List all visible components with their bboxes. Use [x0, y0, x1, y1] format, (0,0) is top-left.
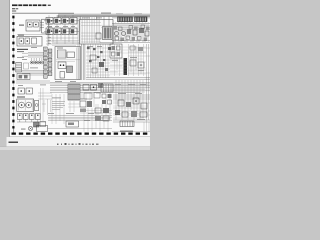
pressure switch P1	[18, 114, 23, 120]
valve V5	[92, 68, 97, 73]
fold strip corner stub	[13, 129, 15, 134]
solenoid valve S2	[54, 18, 61, 25]
relay K1 block	[26, 20, 40, 31]
switch bank SW5	[102, 94, 112, 104]
wire far right verticals	[147, 44, 149, 120]
wire edge bus	[48, 33, 51, 46]
pump motor M1	[19, 102, 25, 108]
title HYDRAULIC CIRCUIT DIAGRAM	[12, 4, 46, 6]
diode D1	[130, 60, 136, 66]
status bar top line	[0, 145, 150, 148]
sensor B6	[118, 100, 124, 106]
diode D2	[138, 62, 144, 68]
sensor B5	[98, 83, 103, 88]
connector J1	[42, 19, 49, 33]
subtitle line 2	[12, 11, 16, 12]
node ATX label	[17, 97, 25, 98]
wire bus drop	[57, 15, 59, 18]
inhibitor switch SW4	[91, 85, 97, 91]
wire switch drops	[17, 120, 46, 123]
page indicator bar	[9, 142, 18, 143]
valve body V1	[103, 27, 113, 40]
viewer background	[0, 0, 150, 150]
switch bank SW7	[95, 108, 109, 121]
sensor B8	[133, 98, 139, 104]
resistor R1 dark bar	[124, 58, 128, 75]
note line	[12, 12, 74, 15]
subtitle line 1b	[16, 8, 18, 9]
relay K2 contact a	[19, 38, 24, 44]
vertical fold line	[13, 16, 15, 133]
pressure switch P4	[36, 114, 41, 120]
sensor B7	[126, 102, 131, 107]
node MODE label	[17, 49, 28, 50]
wire right band verticals	[116, 80, 143, 120]
wire case horizontal runs	[81, 23, 101, 26]
relay box RB2	[94, 93, 100, 99]
valve V7	[105, 68, 108, 71]
solenoid valve S8	[70, 28, 77, 35]
connector row CR1	[114, 25, 150, 31]
TCM sub box E	[60, 72, 65, 79]
page bottom edge	[9, 135, 150, 138]
wire harness H9 left feed lines	[38, 93, 52, 115]
node 4WD label	[19, 25, 24, 26]
connector C9	[37, 126, 48, 132]
solenoid valve S7	[62, 28, 69, 35]
top bus label	[101, 12, 111, 15]
TCM sub box C	[58, 62, 66, 69]
lamp L1	[30, 58, 33, 64]
valve V6	[108, 47, 111, 50]
wire pre-module horizontals	[52, 41, 80, 46]
wire right lower bus1	[112, 40, 150, 42]
pressure switch P3	[30, 114, 35, 120]
relay K1 coil dot a	[29, 24, 31, 26]
tag marks mid right	[87, 47, 105, 62]
pump assembly box	[17, 99, 34, 112]
wire case internals curtain	[81, 17, 100, 43]
sensor B12	[131, 111, 137, 117]
terminal strip dots	[45, 49, 50, 72]
wire harness H5 bottom right grid	[113, 86, 150, 118]
lamp L2	[33, 58, 36, 64]
sensor B11	[122, 112, 128, 117]
wire harness H6 bottom middle verticals	[52, 92, 110, 124]
vertical fold dash strip	[12, 16, 14, 129]
switch 4WD SW6	[80, 101, 92, 112]
wire module internal runs	[56, 48, 80, 80]
node strip label	[120, 131, 133, 132]
page sheet	[10, 0, 150, 137]
valve body V1 hatch	[103, 27, 111, 38]
wire solenoid row2	[44, 30, 79, 32]
wire case feed verticals	[81, 17, 110, 27]
wire module right bus	[82, 44, 85, 80]
TCM label	[57, 47, 63, 50]
page left edge	[8, 0, 11, 137]
lamp L3	[35, 58, 38, 64]
relay K2 label	[18, 34, 24, 37]
switch SW8	[24, 63, 29, 69]
wire bottom right bus	[113, 120, 150, 122]
junction box JB2	[101, 84, 113, 92]
title suffix mark	[48, 5, 51, 6]
valve V3	[90, 55, 96, 60]
relay K2 dot a	[21, 40, 23, 42]
relay K2 contact c	[32, 38, 37, 44]
fuse box F1	[16, 63, 22, 73]
wire harness H8 mid drops	[68, 101, 112, 120]
node MODE label 2	[17, 50, 24, 53]
wire pump side verticals	[41, 88, 44, 121]
subtitle line 1	[12, 8, 15, 9]
wire case lower grid	[81, 33, 101, 42]
connector block CB2	[135, 17, 148, 22]
terminal block T3	[120, 121, 134, 127]
wire fan harness	[22, 53, 44, 58]
wire right band mesh horizontals 3	[113, 85, 148, 114]
switch SW1	[115, 32, 119, 36]
wire mid-left bus	[22, 71, 52, 76]
TCM module U1	[55, 47, 81, 80]
wire long bus band	[50, 82, 150, 92]
wire left band bus	[16, 81, 50, 83]
wire harness H1 solenoid drops	[46, 15, 79, 44]
note text block	[52, 102, 65, 110]
wire harness H4 mid-right crossings	[86, 48, 150, 75]
terminal block T2	[34, 122, 46, 128]
wire harness H11 bottom drops	[44, 100, 149, 132]
wire relay to connector	[40, 23, 44, 28]
connector J1 pins	[49, 21, 52, 30]
inhibitor switch SW3	[83, 85, 89, 91]
relay K3	[17, 74, 30, 80]
node dial label	[22, 58, 27, 61]
ground terminal box	[66, 121, 79, 127]
wire mid-right verticals	[88, 44, 108, 78]
relay box RB1	[84, 93, 92, 99]
footer glyph row	[57, 143, 98, 145]
TCM sub box B	[67, 52, 75, 58]
solenoid valve S6	[54, 28, 61, 35]
wire mid cross bus2	[86, 78, 150, 80]
wire right band mesh verticals	[116, 22, 149, 42]
TCM sub box D	[67, 66, 73, 73]
sensor B1	[127, 29, 131, 34]
relay K1 contact a	[28, 22, 33, 27]
wire left feeder pair	[78, 17, 79, 81]
component reference labels	[17, 14, 146, 121]
sensor B9	[141, 103, 147, 109]
node W label	[21, 128, 26, 131]
pump motor M2	[26, 102, 32, 108]
sensor B15	[138, 47, 143, 51]
status bar	[0, 147, 150, 151]
connector block CB1	[118, 17, 133, 22]
junction box JB1	[110, 44, 122, 58]
transmission case box	[80, 20, 114, 45]
sensor B3	[139, 28, 144, 33]
sensor B2	[133, 30, 137, 35]
wire relay feed line	[17, 33, 48, 35]
relay K2 dot b	[27, 40, 29, 42]
solenoid valve S5	[46, 28, 53, 35]
wire top bus line 3	[112, 17, 150, 19]
wire mid cross bus1	[86, 77, 150, 79]
sensor B14	[130, 46, 135, 50]
wire right band mesh horizontals	[101, 25, 150, 29]
breather valve BV1	[28, 126, 32, 130]
terminal strip T1 column A	[44, 47, 48, 78]
wire right band bus	[113, 95, 150, 99]
relay K1 coil dot b	[35, 24, 37, 26]
relay K4	[18, 88, 25, 94]
top bus line 0	[58, 13, 150, 15]
solenoid valve S3	[62, 18, 69, 25]
relay box K2 group	[17, 37, 42, 47]
relay K5	[26, 88, 33, 94]
valve V2	[96, 33, 101, 39]
terminal strip T1 column B	[48, 49, 52, 76]
relay K2 contact b	[25, 38, 30, 44]
wire right drop bus	[112, 23, 150, 25]
wire right band mesh horizontals 2	[110, 47, 146, 74]
sensor B4	[145, 31, 149, 36]
wire solenoid row1	[44, 20, 79, 22]
sensor B10	[115, 110, 120, 115]
lamp L5	[40, 58, 43, 64]
connector row CR2	[115, 36, 147, 41]
pump port small	[35, 104, 38, 107]
wire above dash strip	[48, 129, 151, 132]
sensor B13	[140, 112, 147, 117]
wire right verticals	[114, 24, 147, 43]
horizontal fold dash strip	[12, 132, 148, 134]
lower white strip	[7, 137, 151, 146]
solenoid valve S1	[46, 18, 53, 25]
valve V4	[99, 62, 104, 67]
top bus line 2	[58, 16, 150, 18]
solenoid valve S4	[70, 18, 77, 25]
connector hatch block CB3	[68, 84, 80, 100]
wire right lower bus2	[100, 42, 150, 44]
switch SW2	[122, 32, 126, 36]
relay K1 contact b	[34, 22, 39, 27]
wire harness H7 right column verticals	[115, 44, 144, 76]
pressure switch P2	[24, 114, 29, 120]
top bus line 1	[58, 14, 150, 16]
lamp L4	[38, 58, 41, 64]
pump hatch lines	[18, 100, 32, 111]
TCM sub box A	[58, 50, 67, 58]
wire lower mid bus	[48, 116, 112, 121]
pump port box	[35, 101, 39, 111]
